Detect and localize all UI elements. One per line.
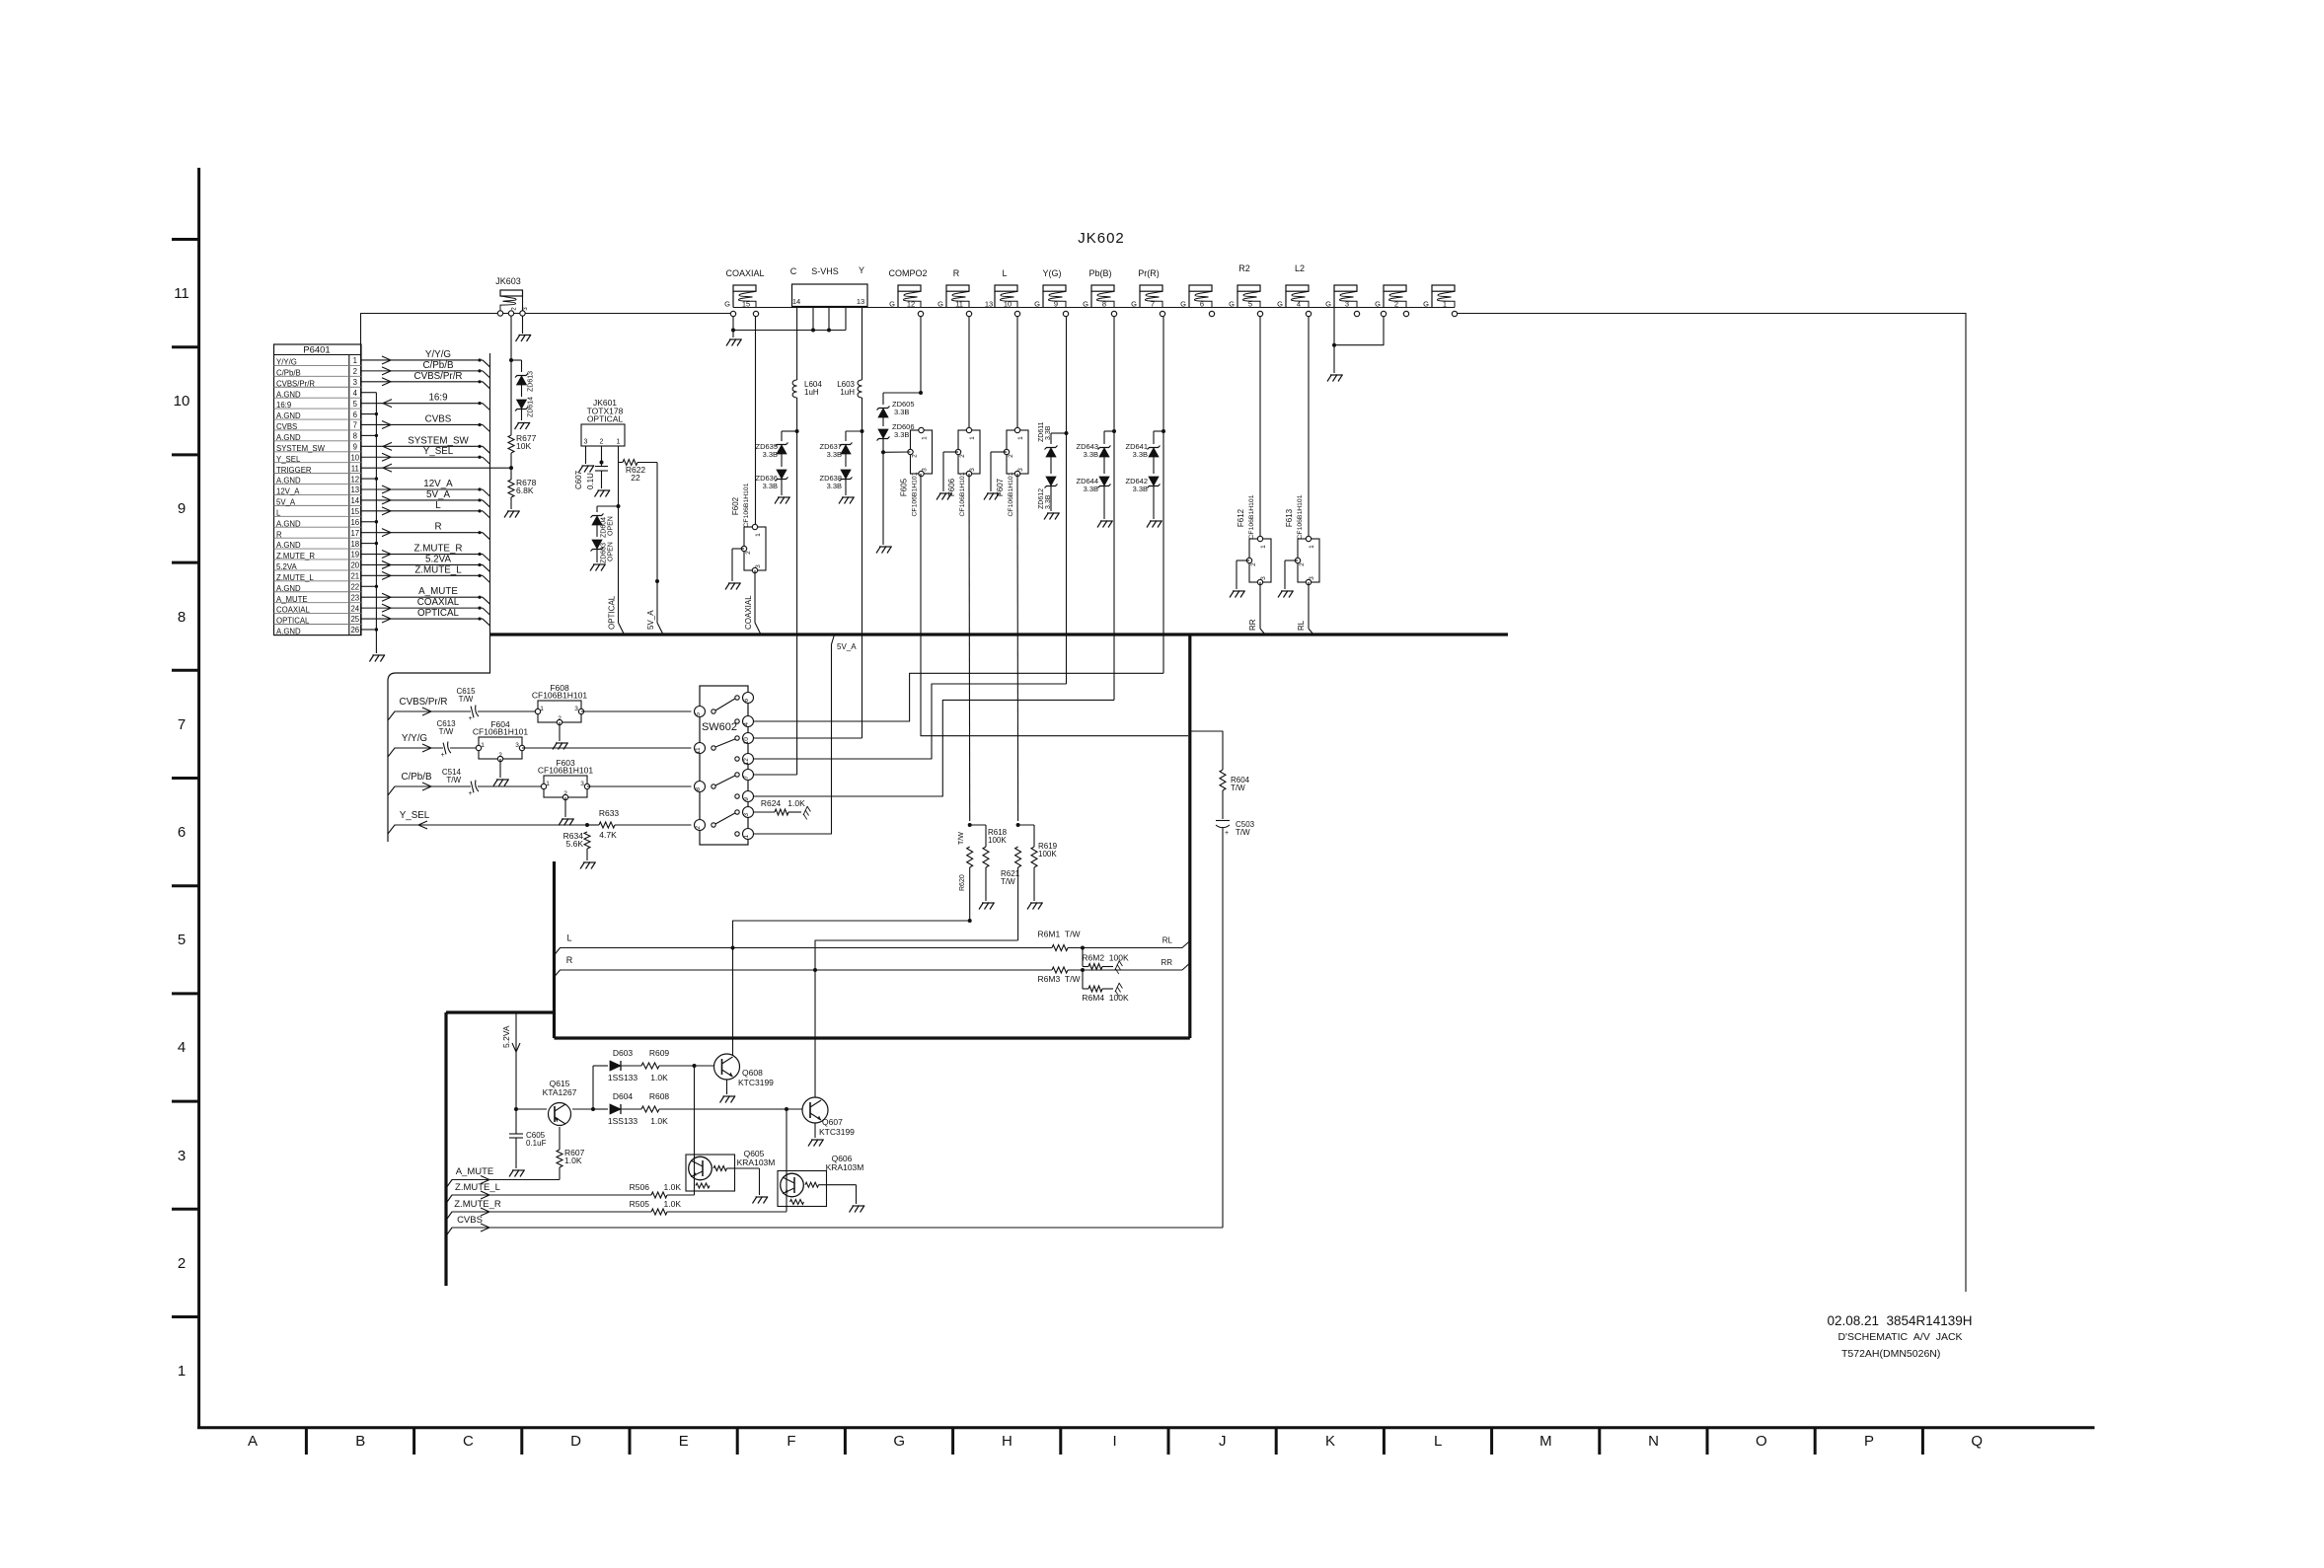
transistor Q608 KTC3199 <box>714 1054 740 1080</box>
svg-text:G: G <box>1131 300 1137 309</box>
jack 1 <box>1432 285 1455 291</box>
wire Y/Y/G line <box>388 748 443 757</box>
wire R pin11 down to F606 <box>968 317 970 430</box>
svg-text:5V_A: 5V_A <box>276 498 296 507</box>
wire shield ground bus under S-VHS <box>733 330 846 332</box>
ground ZD606 chain <box>876 547 892 554</box>
svg-text:12V_A: 12V_A <box>276 487 300 496</box>
svg-text:5.2VA: 5.2VA <box>276 562 297 571</box>
border frame bottom line <box>197 1426 2095 1429</box>
svg-text:1SS133: 1SS133 <box>608 1116 638 1126</box>
svg-text:1: 1 <box>1443 300 1447 309</box>
svg-text:T/W: T/W <box>1001 877 1015 886</box>
wire Z.MUTE_R line <box>446 1212 651 1221</box>
svg-text:+: + <box>468 715 472 722</box>
svg-text:L2: L2 <box>1295 263 1305 273</box>
svg-text:14: 14 <box>792 297 800 306</box>
wire L pin10 down to F607 <box>1016 317 1018 430</box>
svg-text:2: 2 <box>563 790 567 797</box>
ground Q607 <box>808 1140 824 1147</box>
svg-text:1: 1 <box>969 436 976 440</box>
svg-text:R6M1 T/W: R6M1 T/W <box>1038 930 1081 939</box>
svg-text:10: 10 <box>743 737 750 745</box>
svg-text:L: L <box>1002 268 1007 278</box>
svg-text:G: G <box>937 300 943 309</box>
capacitor C514 T/W <box>471 780 479 792</box>
ground F613 pin2 <box>1278 591 1294 598</box>
svg-text:RR: RR <box>1248 619 1257 631</box>
wire P6401 pin 17 R <box>361 532 483 534</box>
wire P6401 ground rows <box>361 392 376 394</box>
svg-text:CF106B1H101: CF106B1H101 <box>1297 494 1304 539</box>
wire top terminal line from P6401 corner to coaxial G <box>361 314 731 635</box>
wire Q615 emitter to R607 <box>559 1127 561 1150</box>
filter F603 CF106B1H101 <box>544 776 587 797</box>
ground C605 <box>509 1170 525 1177</box>
svg-text:5: 5 <box>695 712 702 716</box>
svg-text:G: G <box>889 300 895 309</box>
svg-text:C: C <box>463 1433 474 1450</box>
wire JK603 pin3 to ground <box>522 316 524 334</box>
ground F608 <box>553 743 568 750</box>
wire A_MUTE line <box>446 1180 560 1189</box>
svg-text:1: 1 <box>481 742 485 749</box>
svg-text:1.0K: 1.0K <box>787 798 805 808</box>
wire P6401 pin 13 12V_A <box>361 488 483 490</box>
svg-text:2: 2 <box>600 439 604 446</box>
svg-text:C/Pb/B: C/Pb/B <box>401 772 432 783</box>
resistor R622 22 <box>619 462 624 464</box>
svg-text:1: 1 <box>178 1363 186 1380</box>
ground Q606 <box>850 1206 865 1213</box>
wire Q608 collector up to L <box>732 1054 734 1056</box>
svg-text:J: J <box>1219 1433 1227 1450</box>
wire L audio line <box>555 948 1053 956</box>
svg-text:COAXIAL: COAXIAL <box>276 606 310 615</box>
zener ZD636 3.3B <box>777 470 787 479</box>
svg-text:ZD612: ZD612 <box>1038 488 1045 509</box>
wire JK601 pin2 down <box>601 446 603 463</box>
wire R620 chain crossover to L line <box>733 921 970 1054</box>
svg-text:5: 5 <box>178 932 186 948</box>
wire P6401 pin 2 C/Pb/B <box>361 370 483 372</box>
svg-text:12: 12 <box>350 475 359 484</box>
svg-text:RL: RL <box>1162 936 1173 945</box>
svg-text:T/W: T/W <box>439 727 454 736</box>
svg-text:3.3B: 3.3B <box>1045 494 1052 509</box>
svg-text:CF106B1H101: CF106B1H101 <box>473 727 529 737</box>
svg-text:16: 16 <box>350 518 359 527</box>
svg-text:5.2VA: 5.2VA <box>425 554 451 564</box>
svg-text:5.2VA: 5.2VA <box>501 1025 511 1048</box>
resistor R618 100K <box>970 824 986 826</box>
svg-text:3.3B: 3.3B <box>1084 485 1098 493</box>
filter F607 CF106B1H101 <box>1007 430 1028 474</box>
zener ZD643 3.3B <box>1112 429 1116 433</box>
svg-text:5V_A: 5V_A <box>837 642 857 651</box>
wire outline below collector <box>388 635 490 842</box>
wire Y to SW pin10 <box>754 737 862 739</box>
svg-text:7: 7 <box>178 716 186 733</box>
svg-text:2: 2 <box>1394 300 1398 309</box>
svg-text:2: 2 <box>912 454 919 458</box>
svg-text:D603: D603 <box>613 1048 634 1058</box>
jack 6 <box>1189 285 1212 291</box>
svg-text:22: 22 <box>631 473 640 483</box>
svg-text:12: 12 <box>743 758 750 766</box>
wire P6401 pin 3 CVBS/Pr/R <box>361 381 483 383</box>
wire P6401 collector line <box>489 353 491 635</box>
svg-text:Y/Y/G: Y/Y/G <box>402 733 427 744</box>
svg-text:G: G <box>1229 300 1235 309</box>
zener ZD635 3.3B <box>795 429 799 433</box>
wire Y(G) to SW pin12 <box>754 684 1067 759</box>
filter F612 CF106B1H101 <box>1249 539 1271 582</box>
svg-text:ZD604: ZD604 <box>601 517 608 538</box>
svg-text:KRA103M: KRA103M <box>737 1157 776 1167</box>
svg-text:5: 5 <box>353 400 358 409</box>
svg-text:1: 1 <box>755 533 762 537</box>
ground coaxial shield <box>726 339 742 346</box>
ground F603 <box>559 819 574 826</box>
wire pin1 to right edge drop <box>1458 314 1967 1293</box>
wire Pb down to staircase <box>1113 431 1115 700</box>
svg-text:2: 2 <box>498 752 502 759</box>
svg-text:T/W: T/W <box>446 776 461 784</box>
wire JK603 pin2 down <box>510 316 512 360</box>
wire RL net to bus <box>1308 582 1310 629</box>
svg-text:CVBS: CVBS <box>425 413 452 424</box>
svg-text:10K: 10K <box>516 441 531 451</box>
wire S-VHS pin13 Y signal down <box>862 307 863 381</box>
svg-text:1: 1 <box>546 781 550 787</box>
bus thick horizontal audio top <box>555 1036 1190 1039</box>
svg-text:R506: R506 <box>630 1182 650 1192</box>
wire R audio down <box>968 474 971 821</box>
wire F604 out to SW pin11 <box>522 747 692 749</box>
svg-text:L: L <box>1434 1433 1442 1450</box>
zener ZD603 OPEN <box>592 540 602 549</box>
wire P6401 pin 10 Y_SEL <box>361 456 483 458</box>
svg-text:Y_SEL: Y_SEL <box>423 446 454 457</box>
svg-text:Y: Y <box>859 265 864 275</box>
wire Q608 emitter ground <box>726 1080 728 1094</box>
svg-text:5V_A: 5V_A <box>646 610 655 630</box>
ground F612 pin2 <box>1230 591 1245 598</box>
svg-text:3: 3 <box>755 564 762 568</box>
svg-text:F613: F613 <box>1285 508 1294 527</box>
ground JK603 <box>516 335 532 341</box>
svg-text:Z.MUTE_L: Z.MUTE_L <box>414 564 462 575</box>
svg-text:A.GND: A.GND <box>276 411 301 420</box>
svg-text:3.3B: 3.3B <box>1133 485 1148 493</box>
svg-text:TRIGGER: TRIGGER <box>276 466 312 475</box>
wire P6401 pin 1 Y/Y/G <box>361 359 483 361</box>
svg-text:R: R <box>434 522 441 533</box>
svg-text:21: 21 <box>350 572 359 581</box>
ground R619 <box>1027 903 1043 910</box>
zener ZD612 3.3B <box>1046 477 1056 485</box>
wire ZD chain to ground <box>882 452 884 545</box>
svg-text:T/W: T/W <box>1236 828 1250 837</box>
resistor R505 1.0K <box>651 1209 667 1215</box>
svg-text:4: 4 <box>178 1039 186 1056</box>
svg-text:1: 1 <box>1309 545 1315 549</box>
svg-text:3: 3 <box>1260 576 1267 580</box>
svg-text:1: 1 <box>1260 545 1267 549</box>
wire C to SW pin7 <box>754 774 797 776</box>
svg-text:12V_A: 12V_A <box>423 479 453 489</box>
svg-text:3.3B: 3.3B <box>1045 425 1052 440</box>
wire Y(G) pin9 down <box>1066 317 1068 433</box>
wire jack4 pin down to F613 <box>1308 317 1310 539</box>
svg-text:2: 2 <box>178 1255 186 1272</box>
ground ZD603 <box>590 564 606 571</box>
inductor L603 1uH <box>858 380 862 398</box>
svg-text:F605: F605 <box>900 478 909 496</box>
svg-text:9: 9 <box>1054 300 1058 309</box>
svg-text:N: N <box>1648 1433 1659 1450</box>
svg-text:1: 1 <box>922 436 929 440</box>
svg-text:G: G <box>1034 300 1040 309</box>
wire jack5 pin down to F612 <box>1259 317 1261 539</box>
left ruler ticks <box>172 238 199 241</box>
svg-text:Z.MUTE_R: Z.MUTE_R <box>454 1199 501 1210</box>
svg-text:Q: Q <box>1971 1433 1983 1450</box>
bus thick vertical audio far left <box>444 1012 447 1286</box>
svg-text:1uH: 1uH <box>804 388 819 397</box>
svg-text:CF106B1H101: CF106B1H101 <box>912 472 919 516</box>
svg-text:CVBS/Pr/R: CVBS/Pr/R <box>414 371 463 382</box>
wire JK601 pin1 down OPTICAL <box>618 446 620 506</box>
wire Q615 collector right <box>572 1108 593 1110</box>
svg-text:COAXIAL: COAXIAL <box>417 597 460 608</box>
resistor R634 5.6K <box>584 832 590 849</box>
svg-text:Y_SEL: Y_SEL <box>276 455 301 464</box>
wire Q607 emitter ground <box>814 1123 816 1138</box>
svg-text:7: 7 <box>743 776 750 780</box>
svg-text:A_MUTE: A_MUTE <box>276 595 308 604</box>
svg-text:P: P <box>1864 1433 1874 1450</box>
svg-text:Y/Y/G: Y/Y/G <box>276 358 297 367</box>
svg-text:25: 25 <box>350 615 359 624</box>
capacitor C613 T/W <box>443 741 451 754</box>
svg-text:G: G <box>1083 300 1088 309</box>
svg-text:5: 5 <box>1248 300 1252 309</box>
svg-text:C607: C607 <box>574 470 583 489</box>
svg-text:3: 3 <box>580 781 584 787</box>
wire jack2 shield elbow <box>1334 317 1384 345</box>
svg-text:2: 2 <box>1299 562 1306 566</box>
svg-text:3: 3 <box>1345 300 1349 309</box>
svg-text:D'SCHEMATIC A/V JACK: D'SCHEMATIC A/V JACK <box>1837 1331 1962 1343</box>
ground F604 <box>493 780 509 786</box>
ground R6M4 <box>1114 983 1124 997</box>
ground under R678 <box>504 511 520 518</box>
wire OPTICAL net down to bus <box>618 506 620 623</box>
svg-text:10: 10 <box>350 453 359 462</box>
svg-text:F602: F602 <box>731 496 740 515</box>
svg-text:Pb(B): Pb(B) <box>1088 268 1111 278</box>
svg-text:D: D <box>570 1433 581 1450</box>
wire F608 pin2 ground <box>559 722 561 741</box>
svg-text:+: + <box>468 790 472 797</box>
svg-text:R: R <box>953 268 960 278</box>
svg-text:1uH: 1uH <box>840 388 855 397</box>
svg-text:CF106B1H101: CF106B1H101 <box>743 483 750 527</box>
svg-text:G: G <box>1180 300 1186 309</box>
svg-text:CVBS: CVBS <box>276 422 297 431</box>
wire SW pin1 to 5V_A tap <box>754 635 835 834</box>
svg-text:OPTICAL: OPTICAL <box>587 414 624 424</box>
wire L audio down <box>1016 474 1019 821</box>
svg-text:1.0K: 1.0K <box>664 1199 682 1209</box>
ground Q608 <box>720 1096 736 1103</box>
svg-text:R624: R624 <box>761 798 782 808</box>
svg-text:8: 8 <box>353 432 357 441</box>
svg-text:10: 10 <box>1004 300 1012 309</box>
connector P6401 table <box>274 344 362 635</box>
ground C607 <box>595 490 611 497</box>
svg-text:D604: D604 <box>613 1091 634 1101</box>
svg-text:4.7K: 4.7K <box>599 830 617 840</box>
svg-text:8: 8 <box>695 787 702 791</box>
wire P6401 pin 9 SYSTEM_SW <box>361 445 483 447</box>
svg-text:3: 3 <box>574 706 578 712</box>
svg-text:KTC3199: KTC3199 <box>738 1078 774 1087</box>
wire CVBS bottom line <box>446 1228 1223 1236</box>
svg-text:R633: R633 <box>599 808 620 818</box>
svg-text:A.GND: A.GND <box>276 477 301 485</box>
resistor R678 <box>508 480 514 497</box>
svg-text:100K: 100K <box>1038 850 1057 859</box>
wire S-VHS pin14 C signal down <box>796 307 798 381</box>
svg-text:R608: R608 <box>649 1091 670 1101</box>
svg-text:A.GND: A.GND <box>276 433 301 442</box>
switch SW602 <box>700 686 748 845</box>
diode D604 1SS133 <box>593 1108 608 1110</box>
wire R604 tap from bus <box>1190 731 1223 770</box>
svg-text:H: H <box>1002 1433 1012 1450</box>
wire Pb to SW pin9 <box>754 700 1115 796</box>
svg-text:2: 2 <box>959 454 966 458</box>
resistor R633 4.7K <box>587 824 599 826</box>
wire P6401 pin 25 OPTICAL <box>361 618 483 620</box>
wire COAXIAL net down to bus <box>754 570 756 623</box>
svg-text:OPTICAL: OPTICAL <box>417 608 459 619</box>
svg-text:Y_SEL: Y_SEL <box>400 810 430 821</box>
svg-text:G: G <box>893 1433 905 1450</box>
wire RR net to bus <box>1259 582 1261 629</box>
resistor R6M2 100K <box>1082 948 1084 967</box>
svg-text:4: 4 <box>1297 300 1301 309</box>
svg-text:16:9: 16:9 <box>428 393 447 404</box>
resistor R6M1 T/W <box>1052 945 1068 951</box>
svg-text:A_MUTE: A_MUTE <box>418 586 458 597</box>
svg-text:1: 1 <box>743 835 750 839</box>
wire C/Pb/B line <box>388 786 471 795</box>
wire Y_SEL line <box>388 825 587 834</box>
svg-text:2: 2 <box>1008 454 1014 458</box>
wire coaxial pin15 down to F602 <box>755 317 757 527</box>
wire P6401 pin 15 L <box>361 510 483 512</box>
svg-text:OPTICAL: OPTICAL <box>608 595 617 630</box>
svg-text:26: 26 <box>350 626 359 635</box>
ground Q605 <box>753 1197 769 1204</box>
svg-text:A: A <box>248 1433 258 1450</box>
svg-text:SW602: SW602 <box>702 721 737 733</box>
svg-text:G: G <box>1375 300 1381 309</box>
zener ZD637 3.3B <box>861 429 864 433</box>
svg-text:COAXIAL: COAXIAL <box>744 595 753 630</box>
wire F607 pin2 ground <box>991 451 1007 453</box>
ground F606 pin2 <box>937 493 952 500</box>
svg-text:2: 2 <box>558 715 562 722</box>
svg-text:6: 6 <box>1200 300 1204 309</box>
wire Y(G) down to staircase <box>1066 433 1068 684</box>
bus thick horizontal main <box>490 633 1508 635</box>
svg-text:ZD614: ZD614 <box>528 397 535 417</box>
svg-text:S-VHS: S-VHS <box>811 266 839 276</box>
svg-text:R6M4 100K: R6M4 100K <box>1082 993 1129 1003</box>
ground R624 <box>802 806 812 820</box>
svg-text:CVBS/Pr/R: CVBS/Pr/R <box>400 697 448 708</box>
wire compo2 pin12 down <box>920 317 922 393</box>
svg-text:6: 6 <box>353 411 357 419</box>
svg-text:11: 11 <box>695 747 702 754</box>
svg-text:1.0K: 1.0K <box>564 1156 582 1165</box>
wire C signal down to SW602 pin7 row <box>796 431 798 775</box>
svg-text:RL: RL <box>1297 620 1306 631</box>
resistor R607 1.0K <box>557 1150 562 1167</box>
wire CVBS column down <box>1222 827 1224 1228</box>
capacitor C615 T/W <box>471 705 479 717</box>
svg-text:5V_A: 5V_A <box>426 489 450 500</box>
svg-text:COAXIAL: COAXIAL <box>725 268 764 278</box>
svg-text:24: 24 <box>350 604 359 613</box>
svg-text:2: 2 <box>353 367 357 376</box>
svg-text:15: 15 <box>742 300 750 309</box>
svg-text:CF106B1H101: CF106B1H101 <box>1008 472 1014 516</box>
svg-text:15: 15 <box>350 507 359 516</box>
svg-text:9: 9 <box>178 500 186 517</box>
zener ZD604 OPEN <box>597 505 619 507</box>
zener ZD641 3.3B <box>1162 429 1165 433</box>
svg-text:Q608: Q608 <box>742 1068 763 1078</box>
svg-text:R620: R620 <box>959 874 966 891</box>
svg-text:Z.MUTE_R: Z.MUTE_R <box>276 552 315 560</box>
svg-text:G: G <box>1423 300 1429 309</box>
wire F603 out to SW pin8 <box>587 785 692 787</box>
svg-text:R6M2 100K: R6M2 100K <box>1082 953 1129 963</box>
wire JK601 pin3 to ground <box>585 446 587 464</box>
filter F604 CF106B1H101 <box>479 737 522 759</box>
svg-text:Z.MUTE_L: Z.MUTE_L <box>276 573 314 582</box>
bus thick vertical audio left mid <box>553 861 556 1038</box>
svg-text:R: R <box>566 955 573 965</box>
svg-text:3: 3 <box>1309 576 1315 580</box>
wire F604 pin2 ground <box>499 759 501 778</box>
jack 3 <box>1334 285 1357 291</box>
svg-text:+: + <box>1225 830 1229 837</box>
wire P6401 analog ground rail <box>375 393 377 653</box>
svg-text:CF106B1H101: CF106B1H101 <box>538 766 594 776</box>
svg-text:3: 3 <box>584 439 588 446</box>
svg-text:13: 13 <box>350 485 359 494</box>
filter F606 CF106B1H101 <box>958 430 980 474</box>
svg-text:1: 1 <box>617 439 621 446</box>
filter F602 CF106B1H101 <box>744 527 766 570</box>
